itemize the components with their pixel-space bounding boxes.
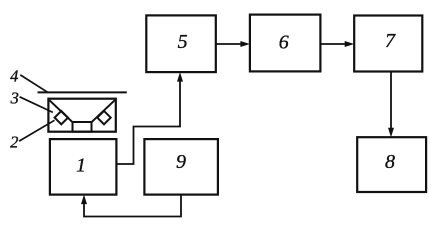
box 6: [250, 15, 321, 72]
left tilted detector 2: [55, 111, 68, 124]
leader line 3: [20, 97, 53, 113]
wire 6 to 7: [320, 41, 354, 47]
box 9: [144, 139, 218, 195]
svg-text:3: 3: [10, 89, 19, 108]
svg-text:5: 5: [178, 31, 188, 53]
central receiver cell: [73, 122, 92, 132]
hopper left wall: [49, 100, 72, 122]
surface line 4: [38, 91, 127, 93]
wire 1 to 5: [116, 72, 183, 164]
right tilted detector: [97, 111, 110, 124]
svg-text:2: 2: [10, 133, 18, 152]
wire 5 to 6: [216, 41, 250, 47]
svg-text:9: 9: [176, 151, 186, 173]
leader line 2: [19, 120, 54, 141]
sensor head housing (block with hopper): [48, 99, 115, 132]
box 8: [357, 137, 426, 192]
box 1: [50, 139, 117, 195]
svg-text:8: 8: [385, 151, 395, 173]
wire 9 to 1: [81, 195, 181, 217]
wire 7 to 8: [388, 72, 394, 138]
hopper right wall: [92, 100, 115, 122]
box 5: [146, 15, 216, 72]
box 7: [354, 16, 422, 72]
svg-text:7: 7: [385, 30, 396, 52]
leader line 4: [20, 75, 47, 92]
svg-text:6: 6: [279, 31, 289, 53]
svg-text:4: 4: [10, 67, 18, 86]
svg-text:1: 1: [76, 155, 86, 177]
